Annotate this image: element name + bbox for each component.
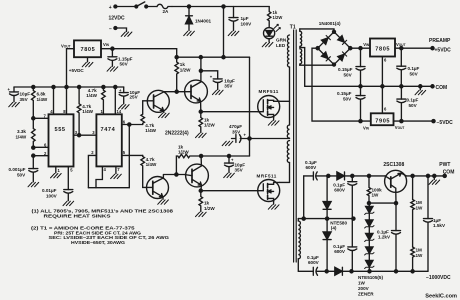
resistor 4.7k 1/4W (c) bbox=[141, 101, 148, 125]
wire top rail to base bbox=[352, 175, 385, 177]
ground (10uF 35V) bbox=[9, 102, 20, 106]
resistor 4.7k 1/4W (b) bbox=[102, 87, 106, 114]
wire 555 pin4 feed bbox=[53, 87, 55, 114]
node 12V feed junction bbox=[222, 5, 225, 8]
svg-text:T1: T1 bbox=[290, 24, 296, 30]
capacitor 0.1uF 1.2kV bbox=[392, 203, 401, 271]
wire feedback bottom bbox=[88, 125, 129, 188]
svg-text:50V: 50V bbox=[17, 172, 26, 177]
diode D1 1N4001 bbox=[186, 7, 193, 31]
svg-text:REQUIRE HEAT SINKS: REQUIRE HEAT SINKS bbox=[44, 214, 111, 219]
resistor 1M 1W (lower) bbox=[411, 247, 415, 271]
svg-text:0.1µF: 0.1µF bbox=[407, 98, 419, 103]
ground (MRF2) bbox=[268, 205, 279, 209]
wire Q4 emitter down bbox=[200, 185, 203, 190]
wire 7474 pin2 bbox=[88, 155, 96, 187]
battery - terminal bbox=[114, 27, 127, 32]
capacitor 0.1uF 600V (top rail) bbox=[304, 172, 329, 180]
ground (PWT COM) bbox=[429, 176, 440, 185]
svg-text:50V: 50V bbox=[120, 61, 129, 66]
svg-text:−1000VDC: −1000VDC bbox=[426, 275, 451, 281]
svg-text:1/4W: 1/4W bbox=[82, 109, 93, 114]
node 100k top bbox=[367, 174, 370, 177]
svg-text:1W: 1W bbox=[416, 205, 424, 210]
wire primary line lower bbox=[289, 163, 291, 183]
svg-text:1.5kV: 1.5kV bbox=[433, 223, 446, 228]
wire gate 1 bbox=[201, 111, 258, 113]
bridge rectifier 1N4001(4) bbox=[316, 30, 352, 66]
node COM regs bbox=[381, 85, 384, 88]
svg-text:LED: LED bbox=[276, 43, 286, 48]
svg-text:1/4W: 1/4W bbox=[37, 97, 48, 102]
svg-text:−5VDC: −5VDC bbox=[437, 120, 454, 126]
wire 7474 pin14 feed bbox=[114, 87, 116, 114]
svg-text:50V: 50V bbox=[343, 96, 352, 101]
node 6.8k top bbox=[32, 85, 35, 88]
svg-text:NTE5105(5): NTE5105(5) bbox=[358, 275, 383, 280]
resistor 1k 1/2W (Q2e) bbox=[199, 112, 203, 133]
ground (D1) bbox=[184, 31, 195, 35]
ground (battery -) bbox=[121, 32, 132, 36]
svg-text:2A: 2A bbox=[163, 9, 170, 14]
LED GRN bbox=[264, 24, 281, 41]
node bottom rail 1.2kV col bbox=[394, 270, 397, 273]
terminal PWT COM bbox=[443, 174, 446, 177]
svg-text:VIN: VIN bbox=[103, 42, 110, 47]
regulator U7 7805 box bbox=[370, 39, 395, 57]
node mid rail cap col bbox=[352, 217, 355, 220]
ground (1k Q4e) bbox=[196, 212, 207, 216]
wire bridge W to -8V line bbox=[312, 48, 371, 121]
wire 7474 pin4 bbox=[96, 166, 102, 187]
ground (10uF 25V) bbox=[118, 105, 129, 109]
svg-text:1µF: 1µF bbox=[433, 218, 441, 223]
transformer T1 HV secondary winding bbox=[298, 219, 300, 272]
svg-text:0.01µF: 0.01µF bbox=[42, 188, 57, 193]
node 1.15uF junction bbox=[111, 47, 114, 50]
capacitor 10uF 35V (mid) bbox=[201, 71, 222, 90]
svg-text:7805: 7805 bbox=[375, 47, 390, 53]
wire LED branch corner bbox=[268, 7, 270, 12]
node -5V 0.1uF bbox=[400, 120, 403, 123]
node 10uF bottom tap bbox=[227, 154, 230, 157]
wire 12V to bottom pair bbox=[201, 155, 249, 157]
svg-text:600V: 600V bbox=[334, 188, 346, 193]
node pin8 rail bbox=[65, 85, 68, 88]
node bottom rail d bbox=[325, 270, 328, 273]
diode NTE580 (bottom rail) bbox=[335, 267, 343, 275]
wire 12V down to CT bbox=[249, 57, 251, 156]
ground (LED) bbox=[262, 42, 273, 46]
svg-text:35V: 35V bbox=[20, 97, 29, 102]
svg-text:12VDC: 12VDC bbox=[109, 16, 126, 22]
transformer T1 primary winding (mid B) bbox=[287, 141, 289, 163]
wire MRF1 drain bbox=[280, 100, 290, 102]
svg-text:6.8k: 6.8k bbox=[37, 92, 46, 97]
ground (10uF bottom) bbox=[224, 173, 235, 177]
svg-text:200V: 200V bbox=[358, 286, 370, 291]
svg-text:1M: 1M bbox=[416, 200, 423, 205]
resistor 1M 1W (upper) bbox=[411, 176, 415, 247]
svg-text:7905: 7905 bbox=[375, 119, 390, 125]
svg-text:VOUT: VOUT bbox=[396, 42, 406, 47]
zener NTE5105 z2 bbox=[365, 213, 374, 228]
node 12V feed corner bbox=[222, 56, 225, 59]
wire zener top to collector bbox=[369, 202, 396, 204]
ground (470uF) bbox=[222, 141, 233, 145]
node 0.1uF a top bbox=[400, 47, 403, 50]
svg-text:1k: 1k bbox=[204, 117, 210, 122]
wire MRF2 drain bbox=[280, 181, 290, 183]
svg-text:555: 555 bbox=[55, 127, 66, 133]
node bottom rail 1M col bbox=[411, 270, 414, 273]
transistor Q5 2SC1308 bbox=[385, 170, 407, 192]
fuse F1 2A bbox=[157, 4, 172, 8]
svg-text:7474: 7474 bbox=[101, 127, 116, 133]
ground (MRF1) bbox=[268, 121, 279, 125]
svg-text:1/4W: 1/4W bbox=[16, 134, 27, 139]
diode NTE580 (col lower) bbox=[323, 219, 331, 272]
capacitor 0.15uF 50V (b) bbox=[356, 86, 365, 121]
wire VOUT 7805 down to +5 rail bbox=[67, 49, 75, 87]
transformer T1 primary winding (mid A) bbox=[287, 125, 289, 138]
ground (0.01uF) bbox=[63, 201, 74, 205]
capacitor 1uF 1.5kV bbox=[424, 176, 433, 271]
svg-text:1/2W: 1/2W bbox=[273, 15, 283, 20]
wire CT to primary bbox=[250, 138, 290, 140]
svg-text:NTE580: NTE580 bbox=[330, 220, 347, 225]
node PWT 1M bbox=[411, 174, 414, 177]
capacitor 1.15uF 50V bbox=[108, 49, 117, 66]
terminal -5VDC bbox=[432, 120, 435, 123]
svg-text:100V: 100V bbox=[241, 22, 253, 27]
wire Q1 emitter bbox=[163, 111, 165, 113]
node COM gnd stub bbox=[419, 85, 422, 88]
node 4.7k a rail bbox=[78, 85, 81, 88]
node pin4 rail bbox=[52, 85, 55, 88]
wire 7905 output bbox=[394, 120, 434, 122]
regulator U2 7805 box bbox=[74, 40, 101, 57]
wire switch to fuse bbox=[146, 6, 157, 8]
node collector junction bbox=[394, 202, 397, 205]
node pin14 rail bbox=[114, 85, 117, 88]
zener NTE5105 z3 bbox=[365, 227, 374, 242]
svg-text:1/4W: 1/4W bbox=[86, 93, 97, 98]
wire pin2 bbox=[33, 155, 48, 157]
wire primary line upper bbox=[289, 67, 291, 125]
svg-text:35V: 35V bbox=[224, 84, 233, 89]
wire MRF2 source bbox=[273, 201, 275, 204]
svg-text:600V: 600V bbox=[306, 165, 318, 170]
resistor 1k 1/2W (LED) bbox=[268, 12, 271, 28]
node COM 0.15 bbox=[359, 85, 362, 88]
node mid rail diode col bbox=[326, 217, 329, 220]
node top rail cap col bbox=[351, 174, 354, 177]
node 555 pin7 junction bbox=[32, 117, 35, 120]
svg-text:0.001µF: 0.001µF bbox=[9, 167, 26, 172]
ground stub (7805) bbox=[87, 57, 89, 62]
wire LV bottom tap bbox=[300, 64, 334, 67]
capacitor 1uF 100V bbox=[229, 7, 238, 31]
svg-text:1N4001: 1N4001 bbox=[195, 19, 212, 24]
zener NTE5105 z5 bbox=[365, 254, 374, 271]
wire Q2 emitter down bbox=[200, 101, 202, 111]
svg-text:600V: 600V bbox=[334, 249, 346, 254]
svg-text:1/2W: 1/2W bbox=[204, 206, 215, 211]
capacitor 0.01uF 100V (555 pin5) bbox=[64, 167, 73, 201]
svg-text:1/2W: 1/2W bbox=[180, 67, 191, 72]
ground (1k Q2e) bbox=[196, 133, 207, 137]
IC U4 7474 box bbox=[96, 114, 121, 166]
wire MRF1 source bbox=[273, 117, 275, 120]
svg-text:1µF: 1µF bbox=[241, 16, 249, 21]
capacitor 10uF 35V (rail left) bbox=[10, 87, 19, 102]
wire Q5 emitter to rail bbox=[401, 173, 445, 176]
node Q4 collector feed bbox=[200, 154, 203, 157]
transistor Q4 2N2222 bbox=[185, 164, 209, 187]
svg-text:0.15µF: 0.15µF bbox=[338, 67, 353, 72]
switch S1 bbox=[135, 2, 148, 8]
wire 7474 pin7 stub bbox=[115, 166, 117, 173]
node Q1c/Q2b bbox=[175, 90, 178, 93]
node Q4e/gate bbox=[199, 189, 202, 192]
capacitor 0.15uF 50V (a) bbox=[356, 48, 365, 86]
transistor Q3 2N2222 bbox=[147, 177, 169, 199]
svg-text:+: + bbox=[109, 5, 112, 11]
node 1k top junction bbox=[175, 56, 178, 59]
resistor 4.7k 1/4W (d) bbox=[141, 155, 147, 187]
svg-text:1k: 1k bbox=[204, 201, 210, 206]
capacitor 10uF 35V (bottom mid) bbox=[225, 156, 234, 173]
wire gate 2 bbox=[201, 190, 258, 192]
wire bridge E to 7805 bbox=[350, 47, 370, 49]
svg-text:10µF: 10µF bbox=[20, 92, 31, 97]
svg-text:35V: 35V bbox=[235, 168, 244, 173]
svg-text:25V: 25V bbox=[130, 95, 139, 100]
svg-text:3.3k: 3.3k bbox=[17, 129, 26, 134]
resistor 4.7k 1/4W (a) bbox=[77, 87, 81, 135]
wire 7474 pin6 bbox=[122, 124, 143, 126]
svg-text:1W: 1W bbox=[358, 281, 366, 286]
svg-text:1/2W: 1/2W bbox=[178, 150, 189, 155]
svg-text:14: 14 bbox=[117, 109, 122, 114]
svg-text:1W: 1W bbox=[372, 193, 380, 198]
wire pin6 bbox=[33, 146, 48, 148]
resistor 6.8k 1/4W bbox=[32, 87, 36, 118]
svg-text:100V: 100V bbox=[46, 194, 58, 199]
wire Q3 collector to Q4 base bbox=[163, 175, 184, 178]
zener NTE5105 z1 bbox=[365, 203, 374, 214]
svg-text:2SC1308: 2SC1308 bbox=[383, 162, 404, 168]
svg-text:2N2222(4): 2N2222(4) bbox=[165, 131, 189, 137]
wire 7805b output bbox=[395, 47, 433, 49]
ground (1uF cap) bbox=[228, 31, 239, 35]
wire 7474 pin5 bbox=[122, 154, 143, 156]
wire 12V horizontal distribution bbox=[177, 56, 250, 58]
svg-text:COM: COM bbox=[436, 85, 448, 91]
ground (7474 pin7) bbox=[111, 174, 122, 178]
svg-text:1/4W: 1/4W bbox=[146, 162, 157, 167]
regulator U8 7905 box bbox=[371, 113, 394, 125]
wire VIN 7805 to 12V feed bbox=[101, 49, 177, 58]
node 0.15uF a top bbox=[359, 47, 362, 50]
wire 555 pin8 feed bbox=[66, 87, 68, 114]
wire 555 pin3 to 7474 pin3 bbox=[74, 134, 97, 136]
battery + terminal bbox=[114, 5, 117, 8]
svg-text:0.1µF: 0.1µF bbox=[408, 66, 420, 71]
svg-text:1.2kV: 1.2kV bbox=[378, 235, 391, 240]
svg-text:1/4W: 1/4W bbox=[145, 128, 156, 133]
MOSFET U6 MRF511 (bottom) bbox=[258, 180, 280, 202]
svg-text:+5VDC: +5VDC bbox=[69, 68, 85, 73]
capacitor 0.1uF 600V (col mid-bottom) bbox=[348, 219, 357, 272]
capacitor 0.1uF 600V (bottom rail) bbox=[313, 267, 317, 275]
node 10uF mid tap bbox=[199, 69, 202, 72]
wire 7805b/7905 ground pins bbox=[381, 57, 383, 114]
ground (0.001uF) bbox=[28, 182, 39, 186]
svg-text:VOUT: VOUT bbox=[61, 43, 71, 48]
wire + terminal to switch bbox=[115, 6, 136, 8]
svg-text:50V: 50V bbox=[409, 103, 418, 108]
transformer T1 primary winding (upper) bbox=[288, 35, 290, 67]
ground (555 pin1) bbox=[51, 174, 62, 178]
svg-text:ZENER: ZENER bbox=[358, 292, 374, 297]
IC U3 555 box bbox=[49, 114, 74, 166]
svg-text:PREAMP: PREAMP bbox=[429, 38, 451, 44]
MOSFET U5 MRF511 (top) bbox=[258, 96, 280, 118]
node top rail d1 bbox=[327, 174, 330, 177]
capacitor 10uF 25V (rail end) bbox=[119, 87, 128, 104]
node zener top bbox=[367, 202, 370, 205]
node bottom rail zener col bbox=[368, 270, 371, 273]
svg-text:1k: 1k bbox=[180, 62, 186, 67]
capacitor 0.1uF 600V (col mid-top) bbox=[348, 176, 357, 219]
resistor 3.3k 1/4W bbox=[32, 118, 36, 147]
svg-text:0.15µF: 0.15µF bbox=[337, 91, 352, 96]
wire COM rail bbox=[305, 85, 433, 87]
node 555 pin6 junction bbox=[32, 146, 35, 149]
capacitor 470uF 35V bbox=[232, 135, 250, 143]
svg-text:MRF511: MRF511 bbox=[257, 173, 277, 178]
transformer T1 core bbox=[294, 30, 297, 262]
svg-text:1N4001(4): 1N4001(4) bbox=[319, 21, 341, 26]
node 0.15uF b bottom bbox=[359, 120, 362, 123]
terminal +5VDC bbox=[431, 47, 434, 50]
capacitor 0.1uF 50V (b) bbox=[397, 86, 406, 121]
svg-text:GRN: GRN bbox=[276, 38, 287, 43]
resistor 1k 1/2W (Q4e) bbox=[199, 191, 203, 212]
wire Q5 collector down bbox=[395, 192, 397, 203]
svg-text:MRF511: MRF511 bbox=[259, 89, 279, 94]
wire 12V feed vertical bbox=[223, 7, 225, 58]
diode NTE580 (top rail) bbox=[328, 172, 352, 180]
resistor 1k 1/2W (top) bbox=[175, 57, 179, 91]
node pin6/feedback junction bbox=[128, 123, 131, 126]
svg-text:VIN: VIN bbox=[363, 42, 370, 47]
wire Q2 collector up bbox=[200, 57, 202, 82]
node PWT 1uF bbox=[426, 174, 429, 177]
transistor Q2 2N2222 bbox=[185, 80, 208, 103]
wire HV middle rail bbox=[298, 218, 353, 220]
svg-text:7805: 7805 bbox=[81, 47, 96, 53]
wire Q3 emitter bbox=[162, 197, 164, 199]
node 4.7k a clock bbox=[78, 134, 81, 137]
transistor Q1 2N2222 bbox=[147, 90, 169, 112]
ground (Q3) bbox=[158, 200, 169, 204]
svg-text:1/2W: 1/2W bbox=[204, 123, 215, 128]
ground (10uF mid) bbox=[212, 90, 223, 94]
wire Q1 collector to Q2 base bbox=[164, 91, 184, 93]
transformer T1 LV secondary winding bbox=[300, 29, 302, 65]
svg-text:SeekIC.com: SeekIC.com bbox=[425, 293, 457, 299]
resistor 100k 1W bbox=[367, 176, 371, 203]
node CT feed bbox=[248, 137, 251, 140]
wire HV bottom rail bbox=[298, 270, 428, 272]
resistor 1k 1/2W (bottom horiz) bbox=[176, 154, 201, 174]
diode NTE580 (col upper) bbox=[323, 176, 331, 219]
ground (7805) bbox=[82, 62, 93, 66]
svg-text:1M: 1M bbox=[416, 248, 423, 253]
svg-text:VIN: VIN bbox=[363, 125, 370, 130]
capacitor 0.001uF 50V bbox=[29, 156, 38, 182]
wire 12V top line bbox=[172, 6, 269, 8]
wire Q4 collector up bbox=[200, 156, 202, 166]
ground (1.15uF) bbox=[107, 67, 118, 71]
svg-text:+5VDC: +5VDC bbox=[435, 47, 452, 53]
svg-text:50V: 50V bbox=[344, 72, 353, 77]
svg-text:600V: 600V bbox=[308, 260, 320, 265]
wire LV center tap to COM bbox=[300, 48, 305, 87]
svg-text:1W: 1W bbox=[416, 253, 424, 258]
zener NTE5105 z4 bbox=[365, 240, 374, 255]
terminal COM bbox=[431, 85, 434, 88]
ground (COM) bbox=[415, 86, 426, 94]
wire 555 pin1 bbox=[55, 167, 57, 173]
capacitor 0.1uF 50V (a) bbox=[397, 48, 406, 86]
node 4.7k b rail bbox=[102, 85, 105, 88]
svg-text:PWT: PWT bbox=[439, 162, 450, 168]
node Q2e/gate bbox=[199, 110, 202, 113]
ground (Q1) bbox=[159, 113, 170, 117]
node PWT gnd bbox=[433, 174, 436, 177]
wire pin7 bbox=[33, 117, 48, 119]
wire +5V rail bbox=[14, 86, 124, 88]
node Q2 collector feed bbox=[199, 56, 202, 59]
svg-text:COM: COM bbox=[443, 170, 455, 176]
node Q3c/Q4b bbox=[175, 173, 178, 176]
node COM 0.1 bbox=[400, 85, 403, 88]
node bottom rail cap col bbox=[350, 270, 353, 273]
svg-text:HVSIDE–650T, 30AWG: HVSIDE–650T, 30AWG bbox=[71, 240, 125, 245]
wire LV top tap bbox=[300, 29, 334, 32]
svg-text:VOUT: VOUT bbox=[395, 125, 405, 130]
node mid rail left bbox=[302, 217, 305, 220]
svg-text:50V: 50V bbox=[410, 71, 419, 76]
svg-text:35V: 35V bbox=[232, 129, 241, 134]
svg-text:−: − bbox=[109, 27, 112, 33]
wire HV left vertical bbox=[303, 176, 305, 219]
node 555 pin2 junction bbox=[32, 154, 35, 157]
node 12V/diode junction bbox=[187, 5, 190, 8]
svg-text:(4): (4) bbox=[331, 226, 337, 231]
